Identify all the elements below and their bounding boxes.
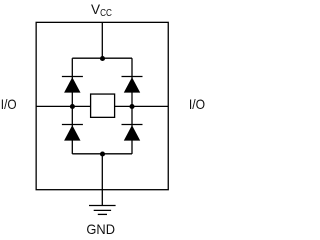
svg-text:GND: GND xyxy=(86,222,115,237)
diode D1 top-left xyxy=(62,77,83,93)
node left I/O junction xyxy=(70,104,75,109)
diode D3 bottom-left xyxy=(62,125,83,141)
wire bottom rail xyxy=(72,153,132,155)
wire GND drop xyxy=(101,154,103,206)
IC outline box xyxy=(36,22,168,189)
diode D4 bottom-right xyxy=(122,125,143,141)
ground symbol xyxy=(89,206,116,215)
wire left branch xyxy=(71,58,73,154)
svg-text:I/O: I/O xyxy=(1,97,17,112)
node GND rail junction xyxy=(100,151,105,156)
wire top rail xyxy=(72,57,132,59)
clamp box U1 xyxy=(91,94,115,117)
svg-text:I/O: I/O xyxy=(189,97,205,112)
wire right branch xyxy=(131,58,133,154)
node VCC rail junction xyxy=(100,56,105,61)
diode D2 top-right xyxy=(122,77,143,93)
wire VCC drop xyxy=(101,22,103,58)
svg-text:VCC: VCC xyxy=(91,2,112,19)
wire mid I/O line xyxy=(36,105,168,107)
node right I/O junction xyxy=(129,104,134,109)
